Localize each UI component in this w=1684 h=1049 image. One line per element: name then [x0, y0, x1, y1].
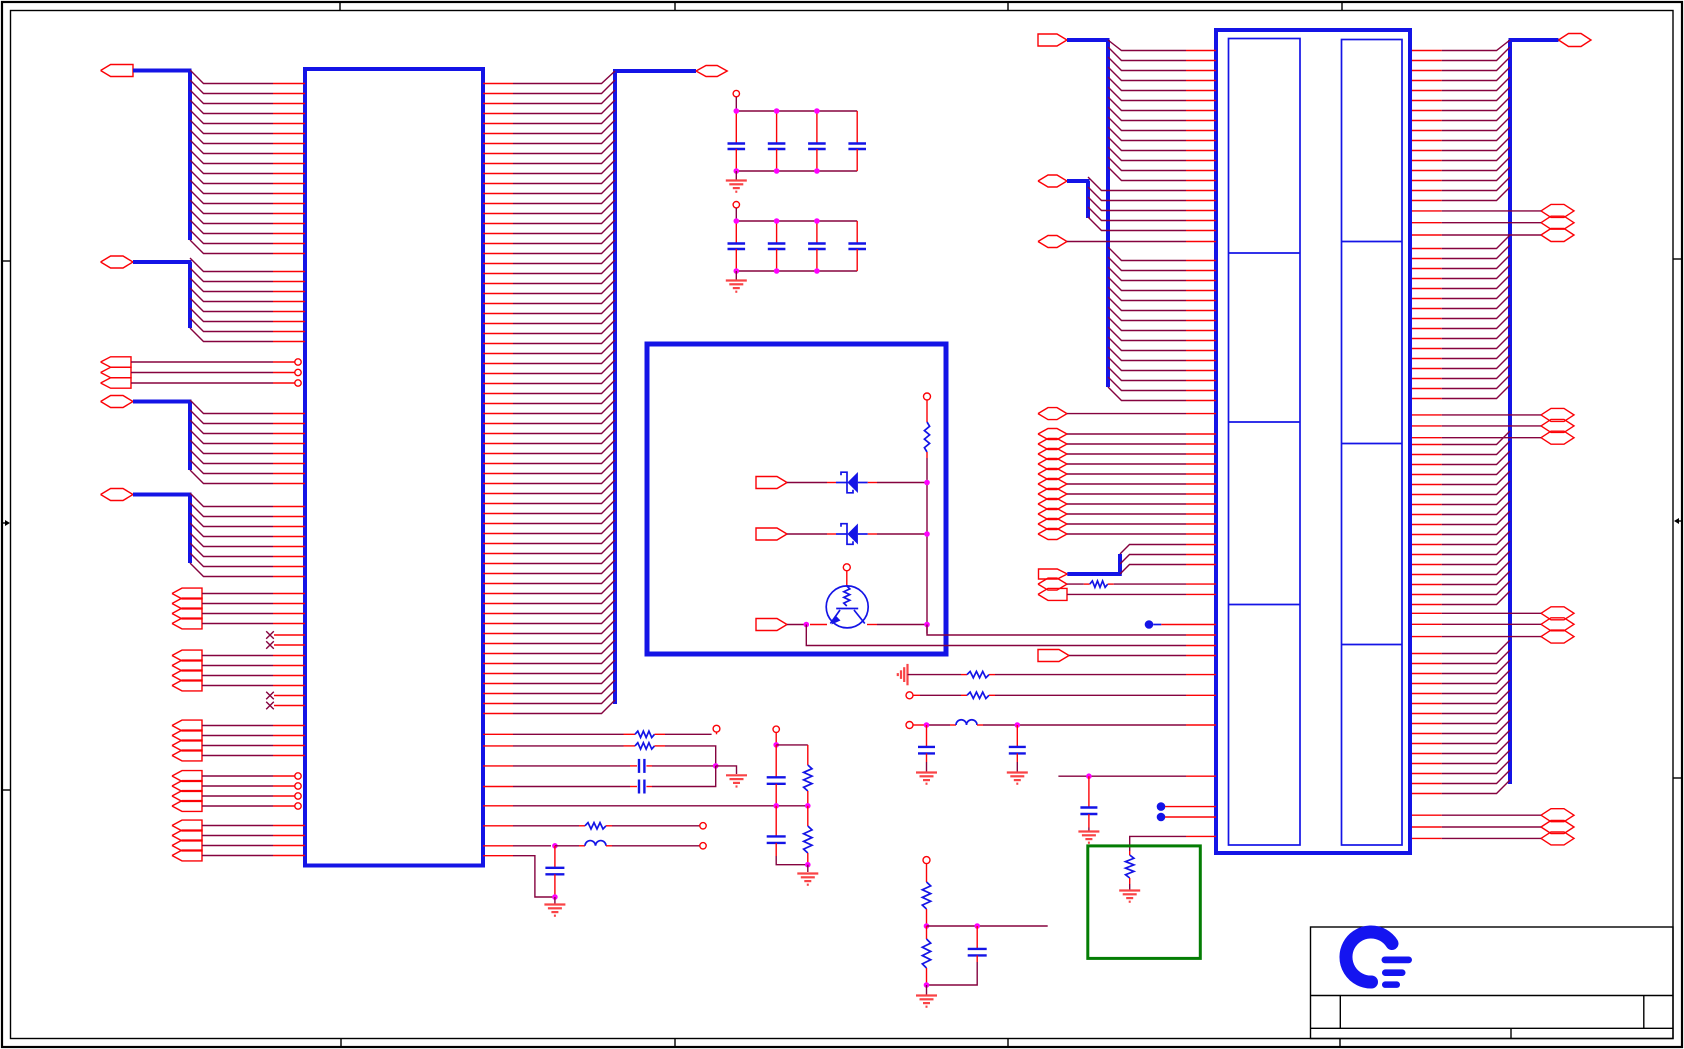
signal wire stack 11 [1067, 533, 1216, 535]
connector right fan A pin 3 [1412, 70, 1442, 72]
cap bank 1 power terminal [733, 90, 739, 111]
IC right bus entry wire 27 [513, 330, 615, 344]
aux bus2 entry 2 [1120, 555, 1186, 565]
IC right bus entry wire 22 [513, 280, 615, 294]
zener diode D1 [836, 472, 868, 493]
triple group C connector 1 [1541, 607, 1574, 620]
IC right pin 26 [483, 333, 513, 335]
border tick right 2 [1673, 777, 1682, 779]
triple group D wire 3 [1412, 837, 1541, 839]
IC right bus entry wire 54 [513, 600, 615, 614]
ground row 985 [916, 985, 937, 1007]
connector right bus connector [1559, 34, 1592, 47]
IC right bus entry wire 1 [513, 71, 615, 84]
connector left bus entry B4 [1108, 277, 1186, 291]
data bus A pin 16 [273, 233, 305, 235]
border tick bottom 1 [340, 1039, 342, 1048]
connector right fan C bus entry 10 [1442, 521, 1510, 535]
connector left bus entry B11 [1108, 347, 1186, 361]
terminal circle row 826 [700, 823, 706, 829]
data bus B bus entry wire 6 [190, 308, 273, 322]
connector left bus entry 14 [1108, 167, 1186, 181]
signal connector stack 2 [1038, 439, 1067, 450]
data bus A bus entry wire 6 [190, 120, 273, 134]
no-connect pin X2 [266, 641, 305, 649]
triple group C wire 1 [1412, 612, 1541, 614]
signal connector stack 7 [1038, 489, 1067, 500]
connector right fan C pin 5 [1412, 484, 1442, 486]
connector left pin B9 [1186, 340, 1216, 342]
triple group B connector 1 [1541, 408, 1574, 421]
resistor R12 [1067, 581, 1114, 587]
IC right pin 32 [483, 393, 513, 395]
control signal pin bubble 2 [273, 369, 301, 375]
connector right fan D pin 4 [1412, 683, 1442, 685]
ferrite bead FB1 [555, 841, 612, 846]
address bus A pin 1 [273, 413, 305, 415]
port group B pin 4 [273, 685, 305, 687]
connector left pin 12 [1186, 160, 1216, 162]
ground R9 [1119, 884, 1140, 902]
connector left pin row 817 [1186, 816, 1216, 818]
address bus A bus entry wire 1 [190, 400, 273, 414]
transistor input junction [804, 622, 810, 628]
aux bus2 pin 1 [1186, 544, 1216, 546]
IC right pin 49 [483, 563, 513, 565]
wire R7 to connector [995, 674, 1186, 676]
IC right bus entry wire 20 [513, 260, 615, 274]
connector right fan D bus entry 13 [1442, 760, 1510, 774]
transistor Q1 collector terminal [843, 564, 850, 571]
connector left pin B3 [1186, 280, 1216, 282]
resistor R7 [961, 671, 995, 677]
control signal pin bubble 3 [273, 380, 301, 386]
IC right bus entry wire 37 [513, 430, 615, 444]
IC right bus entry wire 57 [513, 630, 615, 644]
connector right fan B pin 14 [1412, 378, 1442, 380]
IC right pin 17 [483, 243, 513, 245]
IC right pin 34 [483, 413, 513, 415]
IC pin wire row 766 [483, 765, 630, 767]
address bus A bus entry wire 6 [190, 450, 273, 464]
connector right fan A pin 4 [1412, 80, 1442, 82]
address bus A pin 6 [273, 463, 305, 465]
signal connector row 242 [1038, 236, 1067, 248]
address bus A bus entry wire 8 [190, 470, 273, 484]
connector left bus entry B2 [1108, 257, 1186, 271]
connector left bus entry B15 [1108, 387, 1186, 401]
ferrite bead FB2 [950, 720, 983, 725]
connector aux bus entry 1 [1088, 177, 1186, 191]
data bus A pin 5 [273, 123, 305, 125]
wire box output A [927, 625, 1186, 636]
protection circuit box [647, 344, 946, 654]
connector left bus entry B6 [1108, 297, 1186, 311]
connector right fan D pin 15 [1412, 793, 1442, 795]
IC right bus entry wire 19 [513, 250, 615, 264]
port group D connector 2 [172, 781, 202, 792]
data bus B pin 2 [273, 281, 305, 283]
data bus B bus entry wire 5 [190, 298, 273, 312]
data bus A pin 10 [273, 173, 305, 175]
connector right fan D pin 6 [1412, 703, 1442, 705]
capacitor C8 [848, 221, 866, 271]
signal connector row 594 [1038, 588, 1067, 600]
connector left pin 4 [1186, 80, 1216, 82]
connector right fan A bus entry 1 [1442, 40, 1510, 51]
triple group D connector 1 [1541, 809, 1574, 822]
border center arrow right [1674, 518, 1682, 524]
connector aux bus wire [1067, 181, 1090, 218]
IC pin wire row 746 [483, 745, 624, 747]
cap bank 1 ground [726, 171, 747, 192]
junction row725 right [1015, 722, 1021, 728]
connector left pin B14 [1186, 390, 1216, 392]
IC right bus entry wire 17 [513, 230, 615, 244]
border tick left 2 [2, 789, 11, 791]
wire gnd to R7 [908, 674, 962, 676]
address bus A pin 4 [273, 443, 305, 445]
data bus B bus wire [133, 262, 192, 328]
border tick bottom 4 [1339, 1039, 1341, 1048]
IC right pin 58 [483, 653, 513, 655]
connector right fan B bus entry 6 [1442, 285, 1510, 299]
connector right fan C bus entry 14 [1442, 561, 1510, 575]
no-connect pin X4 [266, 702, 305, 710]
connector left pin B2 [1186, 270, 1216, 272]
IC right bus entry wire 21 [513, 270, 615, 284]
IC pin wire row 806 [483, 805, 808, 807]
connector left bus entry B13 [1108, 367, 1186, 381]
address bus A bus entry wire 4 [190, 430, 273, 444]
signal connector stack 6 [1038, 479, 1067, 490]
connector right fan A bus entry 5 [1442, 77, 1510, 91]
port group B pin 1 [273, 655, 305, 657]
sideways ground row 674 [898, 664, 908, 685]
IC right pin 9 [483, 163, 513, 165]
connector right fan C pin 10 [1412, 534, 1442, 536]
connector right fan A pin 12 [1412, 160, 1442, 162]
IC right bus entry wire 34 [513, 400, 615, 414]
IC right bus entry wire 42 [513, 480, 615, 494]
junction row725 left [924, 722, 930, 728]
connector left pin B11 [1186, 360, 1216, 362]
connector left bus entry B5 [1108, 287, 1186, 301]
data bus B bus connector [101, 256, 133, 268]
connector left pin 13 [1186, 170, 1216, 172]
IC pin wire row 856 [483, 856, 555, 897]
IC right pin 64 [483, 713, 513, 715]
IC right bus entry wire 13 [513, 190, 615, 204]
connector right fan C pin 8 [1412, 514, 1442, 516]
port group D pin bubble 1 [273, 773, 301, 779]
connector right fan D pin 8 [1412, 723, 1442, 725]
data bus A bus entry wire 11 [190, 170, 273, 184]
wire C9 to node [652, 765, 716, 767]
port group D connector 3 [172, 791, 202, 802]
data bus B pin 8 [273, 341, 305, 343]
connector right fan D bus entry 11 [1442, 740, 1510, 754]
signal connector row 655 [1038, 650, 1069, 662]
data bus A bus entry wire 8 [190, 140, 273, 154]
port group A wire 3 [202, 613, 273, 615]
IC right bus entry wire 59 [513, 650, 615, 664]
wire green box row 836 [1130, 836, 1186, 851]
connector left bus entry 7 [1108, 97, 1186, 111]
connector right fan C bus entry 12 [1442, 541, 1510, 555]
no-connect dot row 806 [1157, 802, 1186, 811]
ground C16 [1078, 828, 1099, 843]
port group A wire 1 [202, 593, 273, 595]
data bus A bus entry wire 7 [190, 130, 273, 144]
IC right bus entry wire 23 [513, 290, 615, 304]
address bus B pin 1 [273, 506, 305, 508]
connector right fan D bus entry 14 [1442, 770, 1510, 784]
port group B wire 3 [202, 675, 273, 677]
signal connector stack 8 [1038, 499, 1067, 510]
IC right pin 8 [483, 153, 513, 155]
IC right bus entry wire 12 [513, 180, 615, 194]
transistor Q1 [826, 571, 868, 628]
IC right pin 38 [483, 453, 513, 455]
IC right pin 7 [483, 143, 513, 145]
IC right bus entry wire 32 [513, 380, 615, 394]
IC right bus entry wire 43 [513, 490, 615, 504]
address bus A bus entry wire 2 [190, 410, 273, 424]
port group C wire 3 [202, 745, 273, 747]
data bus B bus entry wire 4 [190, 288, 273, 302]
connector right fan A pin 7 [1412, 110, 1442, 112]
triple group B wire 2 [1412, 425, 1541, 427]
port group B wire 4 [202, 685, 273, 687]
connector right fan C pin 2 [1412, 454, 1442, 456]
connector left pin row 624.5 [1186, 624, 1216, 626]
cap bank 2 junction top 1 [734, 218, 740, 224]
IC right bus entry wire 14 [513, 200, 615, 214]
connector right fan C bus entry 11 [1442, 531, 1510, 545]
signal wire stack 6 [1067, 483, 1216, 485]
IC right pin 46 [483, 533, 513, 535]
junction row 985 [924, 982, 930, 988]
IC right pin 63 [483, 703, 513, 705]
connector right fan A pin 16 [1412, 200, 1442, 202]
connector right fan D pin 2 [1412, 663, 1442, 665]
connector right fan C bus entry 13 [1442, 551, 1510, 565]
control signal wire 1 [131, 361, 273, 363]
connector right fan D bus entry 2 [1442, 650, 1510, 664]
triple group A connector 1 [1541, 204, 1574, 217]
port group B connector 1 [172, 650, 202, 661]
signal wire stack 9 [1067, 513, 1216, 515]
IC right pin 30 [483, 373, 513, 375]
connector right fan B bus entry 12 [1442, 345, 1510, 359]
triple group B wire 1 [1412, 414, 1541, 416]
no-connect pin X1 [266, 631, 305, 639]
node wire R1 to diodes [926, 458, 928, 634]
capacitor C5 [728, 221, 746, 271]
IC right bus entry wire 45 [513, 510, 615, 524]
IC right bus entry wire 38 [513, 440, 615, 454]
data bus A bus entry wire 18 [190, 240, 273, 254]
border tick top 4 [1341, 2, 1343, 11]
data bus A bus connector [101, 65, 133, 77]
port group A pin 4 [273, 623, 305, 625]
junction row806 right [805, 803, 811, 809]
IC right pin 6 [483, 133, 513, 135]
connector left bus entry B14 [1108, 377, 1186, 391]
IC right bus entry wire 49 [513, 550, 615, 564]
triple group D wire 1 [1412, 814, 1541, 816]
wire R6 to terminal [612, 825, 700, 827]
port group C wire 4 [202, 755, 273, 757]
signal wire stack 4 [1067, 463, 1216, 465]
data bus A pin 13 [273, 203, 305, 205]
connector right fan A bus entry 3 [1442, 57, 1510, 71]
resistor R5 [804, 806, 812, 865]
connector right fan C pin 12 [1412, 554, 1442, 556]
control signal pin bubble 1 [273, 359, 301, 365]
IC right pin 3 [483, 103, 513, 105]
connector left bus entry B8 [1108, 317, 1186, 331]
connector left bus entry 9 [1108, 117, 1186, 131]
port group A pin 1 [273, 593, 305, 595]
IC right pin 28 [483, 353, 513, 355]
connector left pin 1 [1186, 50, 1216, 52]
IC right bus entry wire 40 [513, 460, 615, 474]
port group A pin 3 [273, 613, 305, 615]
port group E connector 3 [172, 840, 202, 851]
connector left bus entry 4 [1108, 67, 1186, 81]
port group C wire 2 [202, 735, 273, 737]
IC right bus entry wire 8 [513, 140, 615, 154]
control signal arrow 3 [101, 378, 131, 388]
resistor R10 [922, 864, 930, 927]
connector right fan C bus entry 7 [1442, 491, 1510, 505]
triple group D connector 3 [1541, 832, 1574, 845]
connector right fan B pin 16 [1412, 398, 1442, 400]
no-connect dot row 817 [1157, 813, 1186, 822]
connector right fan B pin 7 [1412, 308, 1442, 310]
border tick bottom 3 [1007, 1039, 1009, 1048]
connector right fan B bus entry 4 [1442, 265, 1510, 279]
port group A wire 2 [202, 603, 273, 605]
IC right bus entry wire 11 [513, 170, 615, 184]
connector right fan A pin 10 [1412, 140, 1442, 142]
IC right bus entry wire 15 [513, 210, 615, 224]
port group D pin bubble 2 [273, 783, 301, 789]
junction row 926 left [924, 923, 930, 929]
IC right pin 47 [483, 543, 513, 545]
IC right bus entry wire 26 [513, 320, 615, 334]
IC right pin 20 [483, 273, 513, 275]
border tick top 1 [339, 2, 341, 11]
port group E wire 4 [202, 855, 273, 857]
connector left bus entry 12 [1108, 147, 1186, 161]
signal connector stack 5 [1038, 469, 1067, 480]
IC right pin 27 [483, 343, 513, 345]
connector right fan C bus entry 17 [1442, 591, 1510, 605]
ground C14 [916, 762, 937, 784]
signal connector stack 3 [1038, 449, 1067, 460]
address bus A bus entry wire 3 [190, 420, 273, 434]
connector left bus entry 13 [1108, 157, 1186, 171]
connector left pin row 725 [1186, 724, 1216, 726]
connector right fan C bus entry 15 [1442, 571, 1510, 585]
connector left bus entry 6 [1108, 87, 1186, 101]
resistor R2 [624, 731, 666, 737]
title block row line 2 [1311, 1027, 1674, 1029]
data bus A pin 14 [273, 213, 305, 215]
capacitor C11 [767, 745, 786, 806]
signal wire row 655 [1069, 655, 1216, 657]
connector right fan A pin 11 [1412, 150, 1442, 152]
IC right bus entry wire 31 [513, 370, 615, 384]
cap bank 2 junction top 3 [814, 218, 820, 224]
connector right fan B pin 4 [1412, 278, 1442, 280]
IC right bus entry wire 4 [513, 100, 615, 114]
IC right bus entry wire 60 [513, 660, 615, 674]
connector left pin 11 [1186, 150, 1216, 152]
connector right fan B pin 12 [1412, 358, 1442, 360]
connector right fan C bus entry 3 [1442, 451, 1510, 465]
IC right pin 22 [483, 293, 513, 295]
address bus A bus entry wire 7 [190, 460, 273, 474]
data bus B pin 4 [273, 301, 305, 303]
terminal circle row 860 [923, 857, 930, 864]
resistor R9 [1126, 851, 1134, 884]
border tick top 2 [674, 2, 676, 11]
data bus A bus entry wire 10 [190, 160, 273, 174]
control signal arrow 1 [101, 357, 131, 367]
address bus A pin 3 [273, 433, 305, 435]
connector right fan B bus entry 10 [1442, 325, 1510, 339]
terminal circle row 806 [773, 726, 779, 732]
IC right bus entry wire 62 [513, 680, 615, 694]
wire FB1 to terminal [612, 845, 700, 847]
connector left pin 14 [1186, 180, 1216, 182]
cap bank 2 junction bottom 1 [734, 268, 740, 274]
IC right bus entry wire 63 [513, 690, 615, 704]
aux bus2 wire [1067, 554, 1122, 574]
junction row 846 [552, 843, 558, 849]
connector right fan A bus entry 14 [1442, 167, 1510, 181]
port group D wire 2 [202, 785, 273, 787]
transistor input wire [787, 624, 827, 626]
signal wire stack 10 [1067, 523, 1216, 525]
IC right bus entry wire 39 [513, 450, 615, 464]
connector right fan D pin 1 [1412, 653, 1442, 655]
connector right fan D pin 5 [1412, 693, 1442, 695]
port group B pin 3 [273, 675, 305, 677]
triple group A connector 3 [1541, 229, 1574, 242]
IC right bus entry wire 18 [513, 240, 615, 254]
address bus A pin 5 [273, 453, 305, 455]
control signal arrow 2 [101, 367, 131, 377]
wire R3 to node [665, 746, 716, 766]
connector left bus entry 11 [1108, 137, 1186, 151]
IC right pin 41 [483, 483, 513, 485]
connector aux pin 1 [1186, 190, 1216, 192]
triple group C wire 3 [1412, 636, 1541, 638]
data bus B pin 5 [273, 311, 305, 313]
connector right fan B bus entry 15 [1442, 375, 1510, 389]
IC right bus entry wire 6 [513, 120, 615, 134]
triple group C connector 2 [1541, 618, 1574, 631]
IC right bus entry wire 9 [513, 150, 615, 164]
title block cell divider left [1339, 996, 1341, 1029]
connector right fan D pin 11 [1412, 753, 1442, 755]
connector right fan D pin 10 [1412, 743, 1442, 745]
